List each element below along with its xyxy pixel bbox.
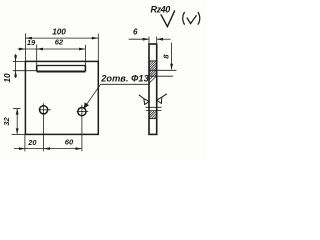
svg-text:8: 8 [162, 54, 171, 59]
svg-text:100: 100 [52, 28, 66, 37]
svg-text:2отв. Ф13: 2отв. Ф13 [100, 74, 149, 84]
svg-text:62: 62 [55, 38, 64, 47]
svg-text:32: 32 [2, 116, 11, 125]
svg-text:6: 6 [133, 27, 138, 36]
svg-text:Rz40: Rz40 [151, 4, 171, 14]
svg-text:10: 10 [3, 73, 12, 83]
svg-text:20: 20 [27, 138, 37, 147]
svg-text:19: 19 [27, 38, 36, 47]
svg-text:60: 60 [65, 138, 74, 147]
